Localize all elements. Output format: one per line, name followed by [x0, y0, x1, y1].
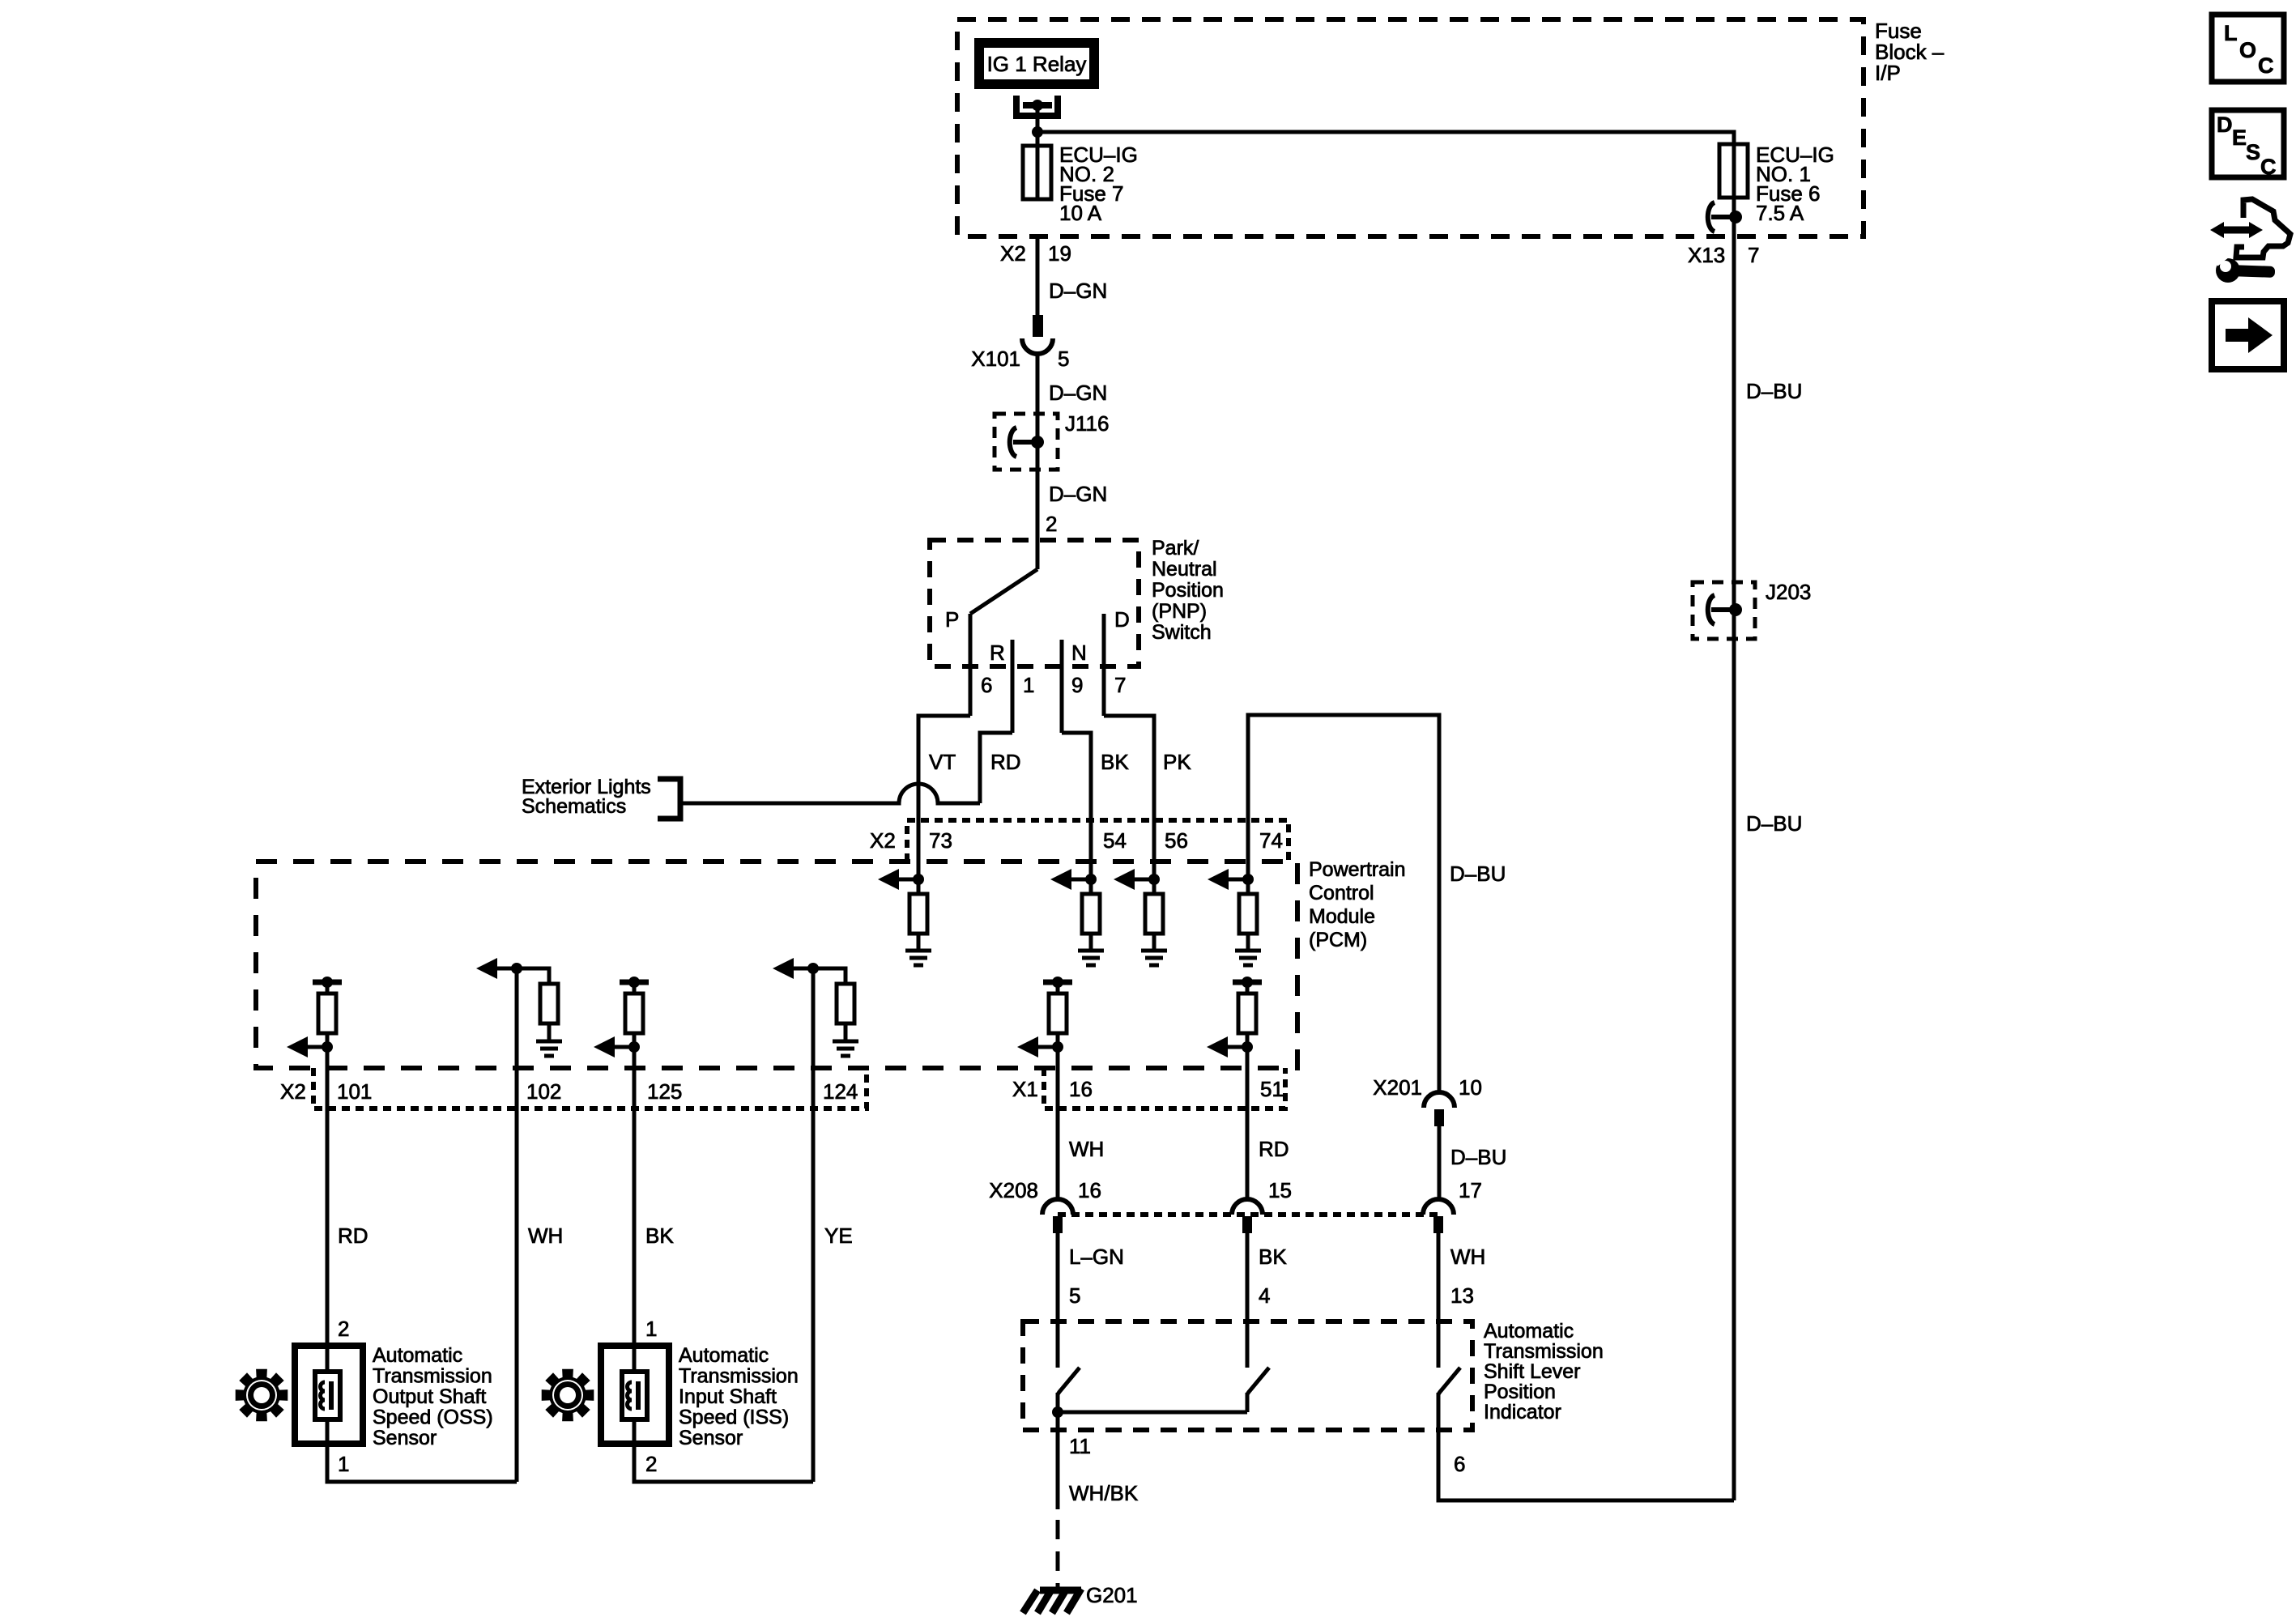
wire L-GN to indicator: [1056, 1233, 1060, 1368]
wire resistor 51 to junction: [1246, 1033, 1250, 1047]
svg-text:D–BU: D–BU: [1746, 811, 1802, 836]
terminal P: [969, 614, 973, 716]
shift lever position indicator dashed box: [1023, 1321, 1472, 1430]
wire RD PCM 51 to X208: [1246, 1047, 1250, 1200]
wire WH pin 102 to OSS sensor: [515, 968, 519, 1482]
resistor R56: [1145, 894, 1163, 934]
terminal D: [1102, 614, 1106, 716]
wire ISS pin2 loop to YE: [634, 1444, 813, 1482]
signal arrow pin 56: [1114, 869, 1160, 890]
wire RD pin 101 to OSS sensor: [326, 1047, 330, 1346]
svg-text:C: C: [2258, 53, 2274, 78]
wire BK pin9 to PCM 54: [1062, 733, 1091, 879]
connector X2 dotted line (PCM top): [907, 820, 1289, 862]
splice J116 dashed box: [995, 414, 1058, 470]
wire D-GN to PNP switch: [1036, 353, 1040, 569]
splice J203 dashed box: [1693, 582, 1755, 639]
branch to resistor 124: [813, 968, 846, 984]
wire resistor 74 to ground: [1246, 934, 1250, 951]
svg-text:X2: X2: [870, 828, 896, 853]
svg-text:E: E: [2232, 126, 2247, 150]
svg-text:11: 11: [1069, 1434, 1091, 1458]
svg-text:17: 17: [1459, 1178, 1482, 1202]
wire resistor 101 to junction: [326, 1033, 330, 1047]
svg-text:1: 1: [338, 1452, 349, 1476]
wire dashed to G201: [1056, 1520, 1060, 1589]
wire to resistor 54: [1089, 879, 1093, 894]
svg-text:X1: X1: [1012, 1077, 1038, 1101]
svg-text:C: C: [2260, 155, 2277, 179]
wire PK pin7 to PCM 56: [1104, 716, 1154, 879]
fuse F6: ECU-IG NO.1 Fuse 6 7.5A: [1732, 144, 1736, 198]
svg-text:7: 7: [1748, 243, 1759, 267]
wire VT pin6 to PCM 73: [918, 716, 970, 879]
signal arrow pin 73: [878, 869, 924, 890]
svg-text:D–BU: D–BU: [1746, 379, 1802, 403]
node top pin 16: [1043, 977, 1072, 988]
svg-text:J203: J203: [1766, 580, 1811, 604]
svg-text:X101: X101: [971, 347, 1020, 371]
svg-text:101: 101: [337, 1079, 372, 1104]
svg-text:VT: VT: [929, 750, 956, 774]
svg-text:BK: BK: [645, 1223, 674, 1248]
svg-text:56: 56: [1165, 828, 1188, 853]
wire WH to indicator: [1437, 1233, 1441, 1368]
svg-text:L: L: [2224, 21, 2238, 45]
fuse F7: ECU-IG NO.2 Fuse 7 10A: [1036, 146, 1040, 199]
svg-text:2: 2: [338, 1317, 349, 1341]
ground internal 124: [833, 1041, 858, 1056]
svg-text:D–BU: D–BU: [1450, 1145, 1506, 1169]
svg-text:16: 16: [1069, 1077, 1093, 1101]
wire switch common to pin 11: [1056, 1393, 1060, 1509]
wire to resistor 74: [1246, 879, 1250, 894]
svg-text:YE: YE: [824, 1223, 853, 1248]
resistor R124: [837, 984, 854, 1023]
svg-text:51: 51: [1260, 1077, 1284, 1101]
svg-text:D–GN: D–GN: [1049, 279, 1107, 303]
terminal N: [1060, 640, 1064, 733]
svg-text:G201: G201: [1086, 1583, 1138, 1607]
sensor ISS box: [601, 1346, 669, 1444]
wire RD pin1 to exterior lights: [980, 733, 1012, 803]
wire D-BU PCM 74 loop to X201: [1248, 715, 1439, 1093]
wire to resistor 56: [1152, 879, 1157, 894]
svg-text:124: 124: [823, 1079, 858, 1104]
wire node to resistor 16: [1056, 982, 1060, 994]
signal arrow pin 16: [1017, 1036, 1063, 1057]
svg-text:15: 15: [1268, 1178, 1292, 1202]
PNP switch dashed box: [930, 540, 1139, 666]
wire resistor 56 to ground: [1152, 934, 1157, 951]
sensor OSS box: [295, 1346, 363, 1444]
wire PNP wiper: [970, 569, 1037, 614]
resistor R51: [1238, 994, 1256, 1033]
wire switch 13 to pin 6 to D-BU: [1438, 1393, 1734, 1500]
svg-text:R: R: [990, 640, 1005, 665]
wire WH PCM 16 to X208: [1056, 1047, 1060, 1200]
svg-text:D–GN: D–GN: [1049, 482, 1107, 506]
svg-text:2: 2: [1046, 512, 1057, 536]
wire switch common bar: [1058, 1411, 1247, 1415]
svg-text:1: 1: [1023, 673, 1034, 697]
wire OSS pin1 loop to WH: [327, 1444, 517, 1482]
svg-text:D–BU: D–BU: [1450, 862, 1506, 886]
svg-text:1: 1: [645, 1317, 657, 1341]
wire relay to fuse 7: [1036, 105, 1040, 146]
ground internal 54: [1078, 951, 1104, 965]
signal arrow pin 102: [476, 958, 522, 979]
connector X201 pin 10: [1424, 1092, 1455, 1126]
relay K: IG 1 Relay box: [979, 43, 1094, 84]
svg-text:5: 5: [1069, 1283, 1080, 1308]
svg-text:D: D: [1114, 607, 1130, 632]
connector X2 dotted line (PCM bottom left): [313, 1068, 867, 1108]
svg-text:N: N: [1071, 640, 1087, 665]
svg-text:2: 2: [645, 1452, 657, 1476]
connector X208 pin 15: [1232, 1199, 1263, 1233]
icon DESC box: [2212, 110, 2284, 177]
icon double arrow: [2210, 222, 2263, 238]
wire resistor 16 to junction: [1056, 1033, 1060, 1047]
wire node to resistor 125: [633, 982, 637, 994]
signal arrow pin 101: [287, 1036, 333, 1057]
svg-text:O: O: [2239, 38, 2256, 62]
node top pin 51: [1233, 977, 1262, 988]
svg-text:X13: X13: [1688, 243, 1725, 267]
svg-text:P: P: [945, 607, 959, 632]
junction switch common: [1052, 1406, 1063, 1418]
signal arrow pin 51: [1207, 1036, 1253, 1057]
wire switch 4 anchor: [1246, 1393, 1250, 1412]
svg-text:PK: PK: [1163, 750, 1191, 774]
off-page reference bracket: [658, 779, 680, 819]
svg-text:WH: WH: [528, 1223, 563, 1248]
ground internal 56: [1141, 951, 1167, 965]
svg-text:X201: X201: [1373, 1075, 1422, 1100]
svg-text:19: 19: [1048, 241, 1071, 266]
wire resistor 102 to ground: [547, 1023, 552, 1041]
resistor R54: [1082, 894, 1100, 934]
wire resistor 125 to junction: [633, 1033, 637, 1047]
junction node: [1032, 126, 1043, 138]
svg-text:RD: RD: [338, 1223, 368, 1248]
resistor R101: [318, 994, 336, 1033]
svg-text:L–GN: L–GN: [1069, 1245, 1124, 1269]
wire resistor 54 to ground: [1089, 934, 1093, 951]
svg-text:102: 102: [526, 1079, 561, 1104]
connector X208 dotted line: [1058, 1212, 1438, 1217]
svg-text:7: 7: [1114, 673, 1126, 697]
wire D-BU X201 to X208: [1438, 1126, 1442, 1200]
svg-text:125: 125: [647, 1079, 682, 1104]
PCM dashed box: [256, 862, 1297, 1068]
splice J203 symbol: [1708, 595, 1736, 624]
switch S5: [1058, 1368, 1080, 1394]
svg-text:X2: X2: [1000, 241, 1026, 266]
svg-text:5: 5: [1058, 347, 1069, 371]
svg-text:73: 73: [929, 828, 952, 853]
signal arrow pin 124: [773, 958, 819, 979]
relay contact terminal symbol: [1016, 96, 1058, 116]
icon wrench: [2211, 249, 2275, 283]
ground internal 73: [905, 951, 931, 965]
signal arrow pin 125: [594, 1036, 640, 1057]
svg-text:BK: BK: [1101, 750, 1129, 774]
gear icon ISS: [542, 1369, 594, 1422]
svg-text:54: 54: [1103, 828, 1127, 853]
connector X208 pin 17: [1423, 1199, 1454, 1233]
svg-text:4: 4: [1259, 1283, 1270, 1308]
branch to resistor 102: [517, 968, 549, 984]
svg-text:9: 9: [1071, 673, 1083, 697]
wire resistor 124 to ground: [844, 1023, 848, 1041]
svg-text:WH: WH: [1069, 1137, 1104, 1161]
svg-text:13: 13: [1450, 1283, 1474, 1308]
signal arrow pin 74: [1208, 869, 1254, 890]
wire junction to fuse 6: [1037, 132, 1734, 146]
svg-text:WH: WH: [1450, 1245, 1485, 1269]
svg-text:D: D: [2217, 113, 2233, 137]
node top pin 101: [313, 977, 342, 988]
connector X208 pin 16: [1042, 1199, 1073, 1233]
svg-text:RD: RD: [990, 750, 1021, 774]
signal arrow pin 54: [1050, 869, 1097, 890]
wire node to resistor 101: [326, 982, 330, 994]
wire resistor 73 to ground: [917, 934, 921, 951]
resistor R102: [540, 984, 558, 1023]
resistor R74: [1239, 894, 1257, 934]
ground internal 74: [1235, 951, 1261, 965]
node top pin 125: [620, 977, 649, 988]
switch S4: [1247, 1368, 1269, 1394]
wire node to resistor 51: [1246, 982, 1250, 994]
resistor R125: [625, 994, 643, 1033]
connector X1 dotted line (PCM bottom right): [1044, 1068, 1285, 1108]
svg-text:WH/BK: WH/BK: [1069, 1481, 1139, 1505]
svg-text:X2: X2: [280, 1079, 306, 1104]
svg-text:J116: J116: [1065, 411, 1109, 436]
svg-text:6: 6: [981, 673, 992, 697]
terminal R: [1011, 640, 1015, 733]
svg-text:74: 74: [1259, 828, 1283, 853]
wire exterior lights with hop over VT wire: [680, 784, 980, 803]
splice J116 symbol: [1010, 428, 1037, 457]
svg-text:RD: RD: [1259, 1137, 1289, 1161]
svg-text:6: 6: [1454, 1452, 1465, 1476]
svg-text:IG 1 Relay: IG 1 Relay: [987, 52, 1087, 76]
svg-text:D–GN: D–GN: [1049, 381, 1107, 405]
wire BK to indicator: [1246, 1233, 1250, 1368]
ground internal 102: [536, 1041, 562, 1056]
svg-text:X208: X208: [989, 1178, 1038, 1202]
switch S13: [1438, 1368, 1460, 1394]
svg-text:S: S: [2246, 140, 2260, 164]
resistor R16: [1049, 994, 1067, 1033]
wire to resistor 73: [917, 879, 921, 894]
connector X101 pin 5: [1033, 315, 1043, 337]
wire D-BU fuse 6 down right side: [1732, 198, 1736, 1500]
wire D-GN from X2-19: [1036, 237, 1040, 317]
svg-text:16: 16: [1078, 1178, 1101, 1202]
wire BK pin 125 to ISS sensor: [633, 1047, 637, 1346]
svg-text:BK: BK: [1259, 1245, 1287, 1269]
icon LOC box: [2212, 15, 2284, 82]
splice below fuse 6: [1708, 202, 1736, 232]
icon forward arrow box: [2212, 301, 2284, 369]
wire YE pin 124 to ISS sensor: [811, 968, 816, 1482]
fuse block I/P dashed box: [957, 19, 1864, 236]
gear icon OSS: [236, 1369, 288, 1422]
svg-text:10: 10: [1459, 1075, 1482, 1100]
icon car silhouette: [2236, 199, 2290, 257]
resistor R73: [909, 894, 927, 934]
ground G201: [1023, 1589, 1081, 1613]
